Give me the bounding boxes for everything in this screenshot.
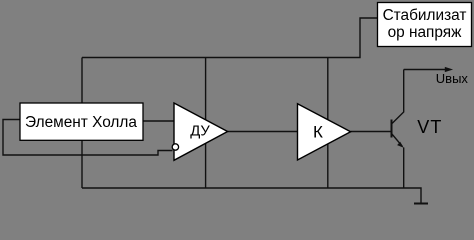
transistor VT — [392, 70, 443, 189]
wire: middle vertical branch (behind DU amp) — [205, 58, 207, 189]
wire: left vertical branch (behind Hall box) — [81, 58, 83, 189]
svg-text:VT: VT — [417, 117, 442, 137]
svg-text:ор напряж: ор напряж — [388, 24, 463, 41]
wire: right vertical branch (behind K amp) — [327, 58, 329, 189]
wire: K output to transistor base — [351, 131, 392, 133]
wire: DU output to K input — [228, 131, 298, 133]
op-amp K (output amplifier) — [298, 104, 351, 160]
svg-text:Uвых: Uвых — [436, 71, 469, 86]
block: stabilizer box — [378, 3, 472, 47]
wire: output arrow Uout — [404, 67, 453, 72]
ground — [414, 203, 428, 205]
svg-text:Стабилизат: Стабилизат — [383, 7, 467, 24]
wire: supply top rail from left branch to stabilizer — [82, 18, 378, 58]
block: Hall element box — [20, 103, 143, 140]
wire: Hall output to DU noninverting input — [143, 120, 174, 122]
wire: bottom ground rail — [82, 188, 421, 204]
inverting input bubble on DU — [172, 144, 178, 150]
svg-text:Элемент Холла: Элемент Холла — [25, 114, 137, 131]
op-amp DU (differential amplifier) — [174, 103, 228, 160]
svg-text:К: К — [313, 123, 323, 142]
wire: Hall second output loop to DU inverting input — [3, 120, 173, 156]
svg-text:ДУ: ДУ — [190, 124, 210, 140]
